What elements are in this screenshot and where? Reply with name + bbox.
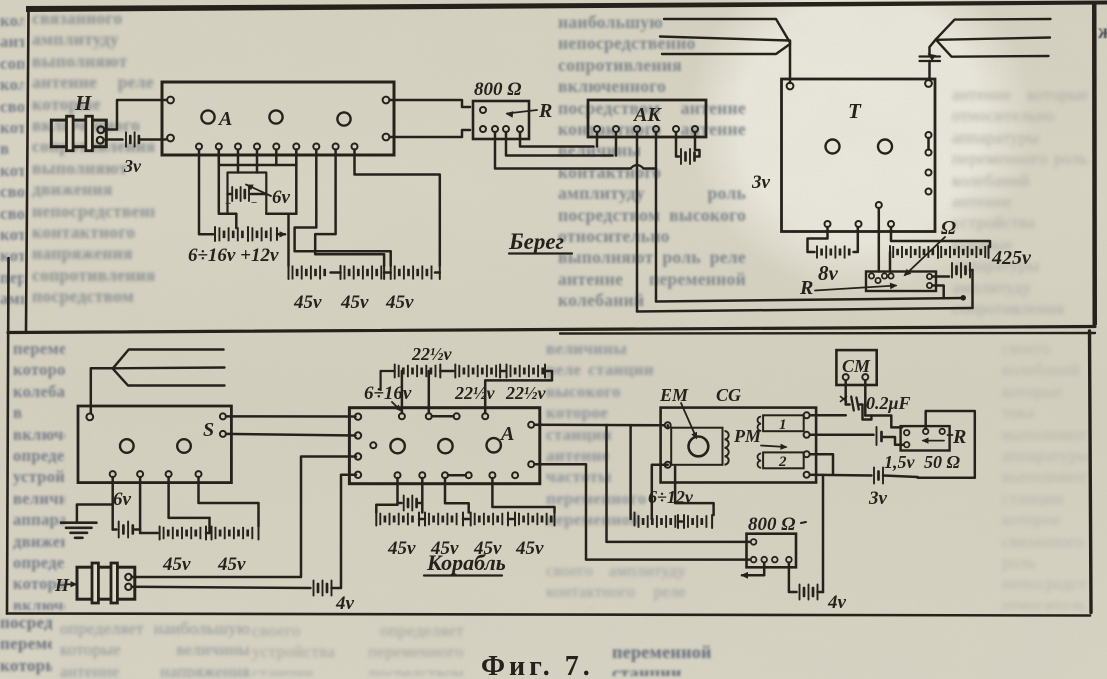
svg-text:6÷16v +12v: 6÷16v +12v (188, 245, 279, 266)
battery grid bias (shore R) (933, 263, 973, 278)
trimmer capacitor antenna lead (920, 39, 941, 80)
transmitter unit T (782, 79, 936, 232)
battery 8v (808, 227, 858, 285)
svg-text:R: R (799, 277, 813, 299)
wire A t2 to 6-16v tap (219, 150, 237, 229)
svg-text:A: A (217, 108, 232, 130)
svg-text:6v: 6v (113, 489, 132, 510)
battery 3v (ship) (810, 454, 918, 509)
svg-text:Берег: Берег (508, 229, 564, 254)
svg-text:1: 1 (779, 417, 787, 433)
terminal bus under A (219, 150, 296, 166)
battery bank 45v x3 (shore) (289, 266, 440, 314)
svg-text:22½v: 22½v (454, 383, 496, 403)
meter CM (836, 350, 876, 385)
svg-text:3v: 3v (123, 156, 142, 176)
wire A t2 ship to bank (421, 478, 424, 513)
battery 4v (ship keying) (789, 475, 847, 613)
svg-text:45v: 45v (515, 538, 544, 559)
relay PM 1 (757, 415, 803, 433)
wire H to A terminal 1 (106, 100, 166, 130)
svg-text:T: T (848, 99, 862, 123)
svg-text:45v: 45v (385, 292, 414, 313)
capacitor 0.2 uF (841, 381, 911, 420)
svg-text:EM: EM (659, 385, 689, 405)
wire CM to R 50ohm (810, 381, 902, 428)
rheostat R plate (shore) (799, 208, 956, 299)
svg-text:3v: 3v (868, 488, 888, 509)
svg-text:22½v: 22½v (411, 344, 453, 364)
wire A ship to 800 ohm top (535, 464, 750, 559)
wire A t3 ship to bank tap (445, 478, 469, 513)
svg-text:45v: 45v (162, 554, 191, 575)
svg-text:0.2μF: 0.2μF (866, 393, 911, 413)
battery bank 45v x2 (ship) (140, 518, 258, 575)
svg-text:Корабль: Корабль (426, 550, 506, 575)
svg-text:45v: 45v (293, 292, 322, 313)
wires 800 ohm to AK (495, 132, 656, 169)
svg-text:Ω: Ω (941, 217, 956, 239)
battery 4v (ship phones) (132, 475, 357, 614)
battery 6-16v +12v (shore) (188, 227, 287, 266)
battery 6-12v (ship) (631, 425, 714, 528)
relay PM 2 (757, 452, 803, 470)
svg-text:H: H (74, 91, 92, 115)
svg-text:R: R (952, 426, 966, 448)
wire S t4 to 45v right (199, 477, 259, 527)
svg-text:+: + (225, 198, 231, 210)
wire H top to S/A junction (132, 457, 357, 578)
wire A t8 to 45v tap 2 (315, 150, 384, 266)
svg-text:CM: CM (842, 356, 871, 376)
headphones H (ship) (54, 563, 135, 603)
wire A ship out top (to CG) (535, 424, 665, 427)
svg-text:425v: 425v (991, 247, 1032, 269)
wire R box return (933, 286, 944, 299)
svg-text:−: − (251, 197, 257, 209)
svg-text:6v: 6v (272, 187, 291, 208)
relay unit CG with motor EM (659, 385, 816, 483)
antenna (shore) (660, 19, 790, 83)
rheostat 800 ohm R (shore) (473, 79, 552, 139)
wire A t6 to 45v bank left (266, 150, 296, 266)
keying line AK to T rheostat (637, 132, 973, 312)
receiver unit S (78, 406, 231, 483)
battery 6v control (shore) (225, 165, 291, 214)
svg-text:800 Ω: 800 Ω (748, 514, 795, 535)
antenna (ship) (91, 350, 225, 414)
battery 425v (890, 227, 1032, 272)
battery small (ship A bias) (398, 478, 423, 511)
ground (ship) (61, 477, 113, 538)
svg-text:4v: 4v (827, 592, 847, 613)
wire A t7 to 45v tap (295, 150, 391, 266)
label 3v (T filament) (751, 172, 771, 193)
label PM (733, 426, 788, 450)
battery bank 45v x4 (ship) (376, 505, 554, 559)
svg-text:22½v: 22½v (505, 383, 547, 403)
svg-text:45v: 45v (217, 554, 246, 575)
junction box AK (588, 100, 706, 156)
wire A t5 ship to bank right (492, 478, 554, 513)
svg-text:4v: 4v (335, 593, 355, 614)
caption Fig 7 (481, 651, 721, 679)
svg-text:45v: 45v (387, 538, 416, 559)
counterpoise antenna (shore right) (936, 19, 1051, 57)
svg-text:S: S (203, 419, 214, 441)
svg-text:CG: CG (716, 385, 741, 405)
svg-text:1,5v: 1,5v (884, 452, 916, 472)
svg-text:45v: 45v (340, 292, 369, 313)
label Bereg (508, 229, 572, 254)
wire S t3 to 45v tap (169, 477, 210, 518)
wires S to A (ship) (226, 416, 356, 435)
svg-text:AK: AK (632, 104, 662, 126)
wire A t1 to 6-16v battery (199, 150, 213, 235)
label Korabl (424, 550, 506, 576)
svg-text:50 Ω: 50 Ω (924, 452, 961, 472)
svg-text:A: A (499, 423, 514, 445)
svg-text:PM: PM (733, 426, 762, 446)
svg-text:R: R (538, 100, 552, 122)
wire A to rheostat 800 ohm (390, 100, 471, 137)
amplifier unit A (ship) (349, 408, 539, 484)
svg-text:3v: 3v (751, 172, 771, 193)
svg-text:2: 2 (778, 454, 787, 470)
svg-text:8v: 8v (818, 261, 839, 285)
wire down to 800 ohm (ship) top-left (607, 425, 750, 542)
svg-text:6÷16v: 6÷16v (364, 383, 412, 404)
rheostat R 50 ohm (ship) (884, 411, 975, 478)
battery AK bias (676, 132, 700, 164)
svg-text:800 Ω: 800 Ω (474, 79, 521, 100)
rheostat 800 ohm (ship) (741, 514, 807, 579)
battery 3v (shore) (106, 132, 166, 176)
battery 1.5v (810, 427, 903, 445)
amplifier unit A (shore) (162, 82, 394, 155)
battery 6v (ship) (113, 477, 140, 538)
wire A t9 to 45v bank right (355, 150, 440, 266)
battery row 22.5v / 6-16v (ship) (364, 344, 552, 416)
microphone H (shore) (51, 91, 106, 151)
